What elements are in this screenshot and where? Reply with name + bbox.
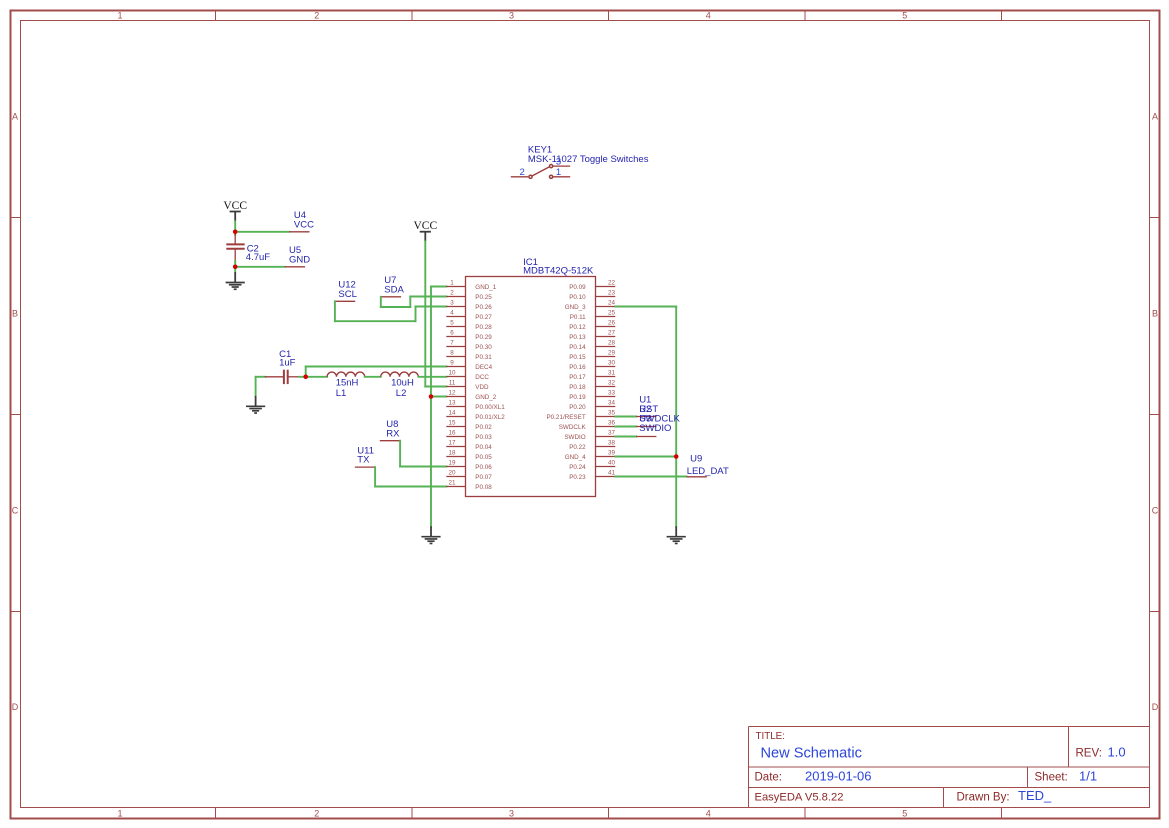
svg-text:MDBT42Q-512K: MDBT42Q-512K [523,266,594,277]
power flag VCC (left) [223,200,247,222]
svg-text:P0.30: P0.30 [475,344,492,351]
IC1 pin 37 (SWDIO) [564,430,615,441]
wire GND rail pin12 [431,396,446,398]
svg-text:5: 5 [902,11,907,21]
IC1 pin 39 (GND_4) [565,450,616,461]
label L2 [396,388,407,399]
svg-text:2: 2 [314,11,319,21]
switch KEY1 pin 3 lead [553,165,570,167]
IC1 pin 27 (P0.13) [569,330,615,341]
capacitor C1 [265,370,299,384]
svg-text:14: 14 [448,410,456,417]
wire SDA to pin 2 [381,297,447,308]
IC1 pin 2 (P0.25) [446,290,492,301]
wire pin 39 GND_4 to rail [615,456,676,458]
svg-text:2: 2 [520,167,525,178]
frame column numbers top [117,11,907,21]
svg-text:9: 9 [450,360,454,367]
svg-text:20: 20 [448,470,456,477]
svg-text:3: 3 [509,11,514,21]
label 1uF [279,358,296,369]
svg-text:25: 25 [608,310,616,317]
title block REV value 1.0 [1108,745,1126,760]
wire GND rail pin1 [431,286,446,288]
svg-text:MSK-11027 Toggle Switches: MSK-11027 Toggle Switches [528,154,649,165]
svg-text:VCC: VCC [223,200,247,212]
IC1 pin 21 (P0.08) [446,480,492,491]
IC1 reference label [523,257,538,268]
wire junction to ground [234,267,236,272]
IC1 pin 1 (GND_1) [446,280,496,291]
svg-text:P0.01/XL2: P0.01/XL2 [475,414,505,421]
inductor L1 [327,372,365,377]
svg-text:4: 4 [706,11,711,21]
wire GND vertical rail [430,287,432,527]
net flag U5 GND [285,245,310,267]
svg-text:P0.16: P0.16 [569,364,586,371]
junction at C2 bottom [233,265,238,270]
svg-text:SWDIO: SWDIO [639,423,671,434]
svg-text:P0.27: P0.27 [475,314,492,321]
net flag U11 TX [355,446,375,468]
title block Sheet value 1/1 [1079,768,1097,783]
svg-text:11: 11 [449,380,456,387]
svg-text:P0.20: P0.20 [569,404,586,411]
wire junction to U5 flag [235,266,285,268]
svg-text:26: 26 [608,320,616,327]
svg-text:6: 6 [450,330,454,337]
svg-text:TED_: TED_ [1018,788,1052,803]
svg-text:P0.02: P0.02 [475,424,492,431]
wire junction to pin 9 DEC4 [306,367,447,377]
svg-text:P0.15: P0.15 [569,354,586,361]
svg-text:34: 34 [608,400,616,407]
svg-text:38: 38 [608,440,616,447]
svg-text:TX: TX [357,455,370,466]
svg-text:Date:: Date: [755,771,783,783]
net flag U4 VCC [289,210,314,232]
svg-text:GND_1: GND_1 [475,284,496,291]
svg-text:5: 5 [450,320,454,327]
title block Date value 2019-01-06 [805,768,872,783]
svg-text:5: 5 [902,809,907,819]
svg-text:C: C [12,506,19,516]
svg-text:1: 1 [556,167,561,178]
svg-text:L1: L1 [336,388,347,399]
svg-text:TITLE:: TITLE: [756,731,785,742]
svg-text:SDA: SDA [384,284,404,295]
frame column ticks bottom [216,808,1002,819]
IC1 pin 26 (P0.12) [569,320,615,331]
wire pin 37 SWDIO to flag [615,436,636,438]
IC1 pin 18 (P0.05) [446,450,492,461]
IC1 pin 13 (P0.00/XL1) [446,400,505,411]
IC1 pin 34 (P0.20) [569,400,615,411]
svg-text:A: A [1152,112,1158,122]
svg-text:2: 2 [450,290,454,297]
svg-text:P0.03: P0.03 [475,434,492,441]
wire L1 to L2 [365,376,381,378]
switch KEY1 pin 1 contact [550,175,553,178]
switch KEY1 lever [532,167,549,176]
frame column ticks top [216,11,1002,21]
svg-text:13: 13 [448,400,456,407]
wire junction to C2 top lead [234,232,236,235]
switch KEY1 reference label [528,145,552,156]
svg-text:10: 10 [448,370,456,377]
label 15nH [336,378,359,389]
svg-text:P0.22: P0.22 [569,444,586,451]
IC1 pin 9 (DEC4) [446,360,492,371]
IC1 pin 41 (P0.23) [569,470,615,481]
IC1 pin 24 (GND_3) [565,300,616,311]
IC body IC1 [466,277,596,497]
svg-text:LED_DAT: LED_DAT [687,466,729,477]
svg-text:21: 21 [448,480,456,487]
svg-text:30: 30 [608,360,616,367]
svg-text:P0.07: P0.07 [475,474,492,481]
svg-text:4: 4 [706,809,711,819]
svg-text:DEC4: DEC4 [475,364,492,371]
label 4.7uF [246,252,270,263]
IC1 pin 29 (P0.15) [569,350,615,361]
svg-text:P0.06: P0.06 [475,464,492,471]
net flag U7 SDA [381,275,405,297]
switch KEY1 pin 3 contact [550,165,553,168]
title block Date label [755,771,783,783]
svg-text:EasyEDA V5.8.22: EasyEDA V5.8.22 [755,792,844,804]
svg-text:P0.13: P0.13 [569,334,586,341]
IC1 pin 5 (P0.28) [446,320,492,331]
svg-text:SCL: SCL [338,289,356,300]
IC1 pin 35 (P0.21/RESET) [546,410,615,421]
IC1 pin 22 (P0.09) [569,280,615,291]
svg-text:P0.19: P0.19 [569,394,586,401]
IC1 pin 36 (SWDCLK) [559,420,616,431]
wire VCC rail to pin 11 VDD [425,242,446,387]
svg-text:P0.08: P0.08 [475,484,492,491]
svg-text:P0.25: P0.25 [475,294,492,301]
svg-text:RX: RX [386,428,400,439]
svg-text:1/1: 1/1 [1079,768,1097,783]
svg-text:P0.00/XL1: P0.00/XL1 [475,404,505,411]
ground symbol (below IC) [421,526,440,543]
svg-text:16: 16 [448,430,456,437]
IC1 pin 15 (P0.02) [446,420,492,431]
net flag U9 LED_DAT [687,454,729,477]
title block EasyEDA version [755,792,844,804]
title block TITLE label [756,731,785,742]
ground symbol (under C1) [246,396,265,413]
svg-text:GND_4: GND_4 [565,454,586,461]
IC1 pin 31 (P0.17) [569,370,615,381]
frame row letters right [1152,112,1159,713]
svg-text:P0.11: P0.11 [570,314,586,321]
net flag U3 SWDIO [636,413,671,436]
IC1 pin 8 (P0.31) [446,350,492,361]
IC1 pin 7 (P0.30) [446,340,492,351]
svg-text:P0.09: P0.09 [569,284,586,291]
svg-text:P0.05: P0.05 [475,454,492,461]
title block Drawn By label [957,792,1010,804]
svg-text:Sheet:: Sheet: [1035,771,1068,783]
junction at GND_2 pin 12 [429,394,434,399]
title block frame [749,727,1150,808]
wire VCC stem to junction [234,221,236,232]
svg-text:22: 22 [608,280,616,287]
wire pin 41 P0.23 to LED_DAT flag [615,476,686,478]
IC1 pin 33 (P0.19) [569,390,615,401]
wire C1 right to L1 [299,376,327,378]
svg-text:D: D [1152,702,1159,712]
svg-text:A: A [12,112,18,122]
IC1 pin 10 (DCC) [446,370,489,381]
svg-text:33: 33 [608,390,616,397]
svg-text:2: 2 [314,809,319,819]
svg-text:L2: L2 [396,388,407,399]
switch KEY1 pin 2 contact [529,175,532,178]
svg-text:SWDIO: SWDIO [564,434,585,441]
net flag U1 RST [636,394,658,416]
ground symbol (under C2) [226,272,245,289]
svg-text:4.7uF: 4.7uF [246,252,270,263]
svg-text:VDD: VDD [475,384,489,391]
svg-text:15: 15 [448,420,456,427]
svg-text:40: 40 [608,460,616,467]
title block title value New Schematic [761,746,862,762]
IC1 value label MDBT42Q-512K [523,266,594,277]
svg-text:1: 1 [117,809,122,819]
svg-text:P0.14: P0.14 [569,344,586,351]
svg-text:VCC: VCC [413,220,437,232]
IC1 pin 28 (P0.14) [569,340,615,351]
svg-text:P0.12: P0.12 [569,324,586,331]
switch KEY1 pin 1 lead [553,176,570,178]
IC1 pin 32 (P0.18) [569,380,615,391]
svg-text:32: 32 [608,380,616,387]
wire RX to pin 19 [400,441,446,467]
wire right GND rail vertical [675,307,677,527]
frame column numbers bottom [117,809,907,819]
frame row ticks left [11,218,21,612]
svg-text:D: D [12,702,19,712]
svg-text:P0.10: P0.10 [569,294,586,301]
switch KEY1 value label MSK-11027 Toggle Switches [528,154,649,165]
frame row letters left [12,112,19,713]
svg-text:New Schematic: New Schematic [761,746,862,762]
svg-text:28: 28 [608,340,616,347]
svg-text:P0.24: P0.24 [569,464,586,471]
svg-text:3: 3 [556,157,561,168]
svg-text:GND_3: GND_3 [565,304,586,311]
switch KEY1 pin number 1 [556,167,561,178]
svg-text:7: 7 [450,340,454,347]
svg-text:B: B [12,309,18,319]
svg-text:P0.31: P0.31 [475,354,492,361]
svg-text:19: 19 [448,460,456,467]
wire C2 bottom to junction [234,261,236,267]
svg-text:1.0: 1.0 [1108,745,1126,760]
ground symbol (right) [667,526,686,543]
junction at GND_4 pin 39 [674,454,679,459]
IC1 pin 40 (P0.24) [569,460,615,471]
svg-text:8: 8 [450,350,454,357]
net flag U2 SWDCLK [636,404,680,427]
inductor L2 [381,372,419,377]
svg-text:12: 12 [448,390,456,397]
svg-text:17: 17 [448,440,456,447]
IC1 pin 3 (P0.26) [446,300,492,311]
svg-text:P0.21/RESET: P0.21/RESET [546,414,585,421]
IC1 pin 30 (P0.16) [569,360,615,371]
switch KEY1 pin number 3 [556,157,561,168]
IC1 pin 17 (P0.04) [446,440,492,451]
svg-text:27: 27 [608,330,616,337]
svg-text:23: 23 [608,290,616,297]
svg-text:3: 3 [450,300,454,307]
IC1 pin 38 (P0.22) [569,440,615,451]
IC1 pin 19 (P0.06) [446,460,492,471]
svg-text:P0.04: P0.04 [475,444,492,451]
svg-text:1: 1 [450,280,454,287]
title block Sheet label [1035,771,1068,783]
svg-text:P0.23: P0.23 [569,474,586,481]
IC1 pin 25 (P0.11) [570,310,616,321]
title block Drawn By value TED_ [1018,788,1052,803]
switch KEY1 pin 2 lead [511,176,528,178]
label C1 [279,349,291,360]
svg-text:2019-01-06: 2019-01-06 [805,768,872,783]
label 10uH [391,378,414,389]
power flag VCC (above IC) [413,220,437,241]
net flag U12 SCL [335,280,357,302]
svg-text:Drawn By:: Drawn By: [957,792,1010,804]
IC1 pin 16 (P0.03) [446,430,492,441]
svg-text:4: 4 [450,310,454,317]
wire pin 36 SWDCLK to flag [615,426,636,428]
svg-text:C: C [1152,506,1159,516]
wire junction to U4 flag [235,231,289,233]
IC1 pin 6 (P0.29) [446,330,492,341]
wire L2 to pin 10 DCC [418,376,446,378]
label L1 [336,388,347,399]
svg-text:U9: U9 [690,454,702,465]
junction at VCC/C2 top [233,230,238,235]
svg-text:REV:: REV: [1076,748,1102,760]
svg-text:3: 3 [509,809,514,819]
svg-text:P0.17: P0.17 [569,374,586,381]
svg-text:1uF: 1uF [279,358,296,369]
svg-text:1: 1 [117,11,122,21]
wire ground riser to C1 left [256,377,266,396]
svg-text:P0.26: P0.26 [475,304,492,311]
IC1 pin 14 (P0.01/XL2) [446,410,505,421]
net flag U8 RX [380,419,400,441]
junction at C1/L1/DEC4 [303,375,308,380]
svg-text:P0.29: P0.29 [475,334,492,341]
svg-text:P0.18: P0.18 [569,384,586,391]
wire SCL to pin 3 [335,301,446,321]
IC1 pin 12 (GND_2) [446,390,496,401]
wire pin 35 RESET to RST flag [615,416,636,418]
wire pin 24 GND_3 to right GND rail [615,306,676,308]
svg-text:VCC: VCC [294,219,314,230]
svg-text:GND_2: GND_2 [475,394,496,401]
switch KEY1 pin number 2 [520,167,525,178]
svg-text:31: 31 [608,370,616,377]
label C2 [247,243,259,254]
IC1 pin 11 (VDD) [446,380,489,391]
capacitor C2 [226,234,244,261]
svg-text:29: 29 [608,350,616,357]
title block REV label [1076,748,1102,760]
wire TX to pin 21 [375,467,446,486]
svg-text:DCC: DCC [475,374,489,381]
svg-text:SWDCLK: SWDCLK [559,424,587,431]
IC1 pin 4 (P0.27) [446,310,492,321]
svg-text:GND: GND [289,254,310,265]
IC1 pin 23 (P0.10) [569,290,615,301]
svg-text:P0.28: P0.28 [475,324,492,331]
svg-text:18: 18 [448,450,456,457]
frame row ticks right [1150,218,1160,612]
IC1 pin 20 (P0.07) [446,470,492,481]
svg-text:B: B [1152,309,1158,319]
